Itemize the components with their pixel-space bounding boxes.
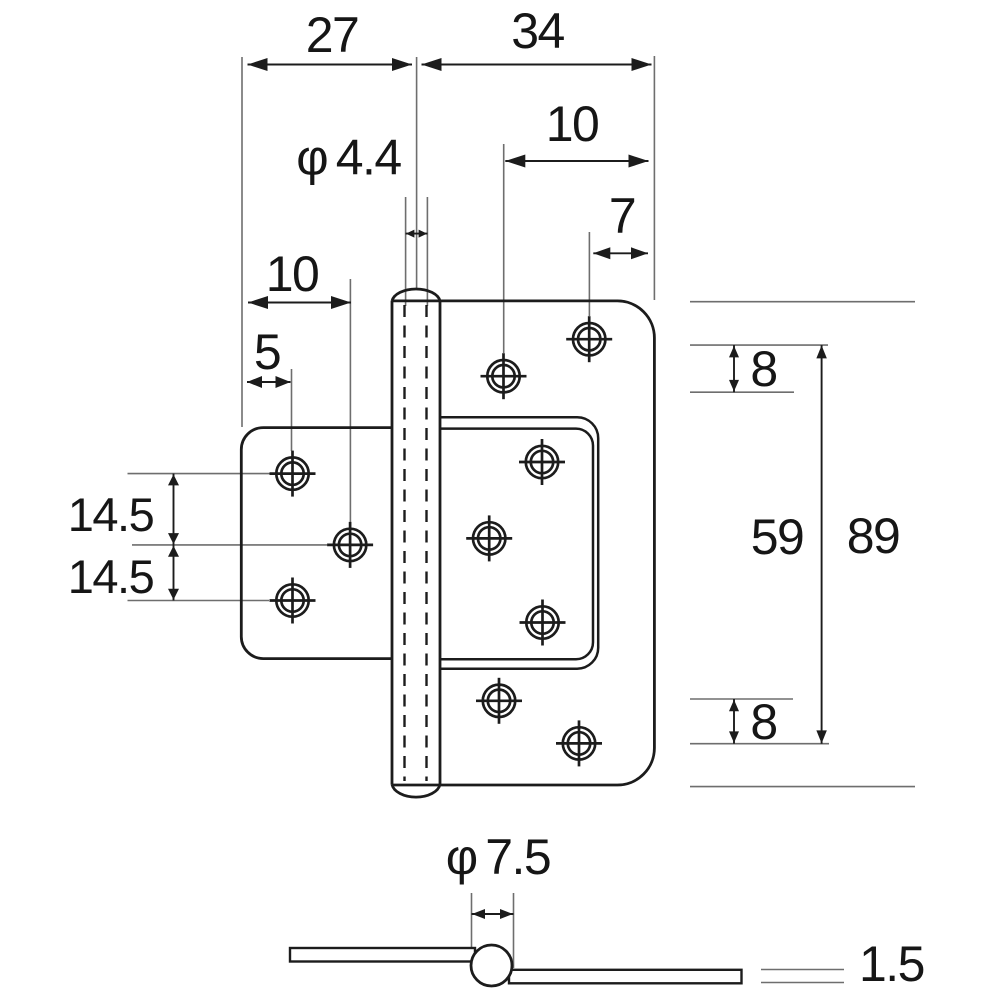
svg-text:7: 7 [609,188,635,244]
svg-text:8: 8 [750,694,776,750]
svg-text:34: 34 [511,3,564,59]
svg-text:10: 10 [546,96,599,152]
svg-text:89: 89 [847,508,900,564]
svg-text:8: 8 [750,341,776,397]
svg-text:φ 7.5: φ 7.5 [446,829,550,885]
svg-text:5: 5 [254,324,280,380]
svg-text:1.5: 1.5 [859,936,924,992]
svg-text:27: 27 [306,7,359,63]
svg-text:10: 10 [266,246,319,302]
svg-text:14.5: 14.5 [68,550,154,603]
svg-text:59: 59 [751,509,804,565]
svg-text:14.5: 14.5 [68,488,154,541]
svg-text:φ 4.4: φ 4.4 [296,130,401,186]
